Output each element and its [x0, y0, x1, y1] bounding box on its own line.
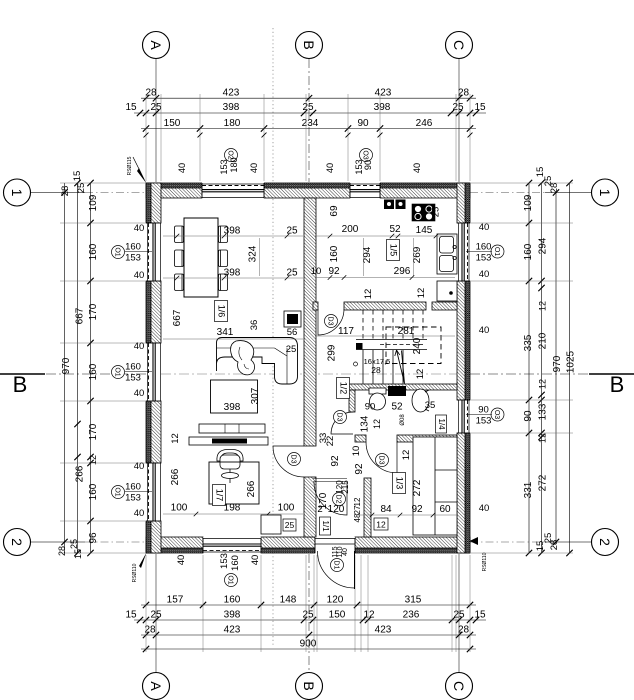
- right dimension column segments 109-160-335-90-331: [528, 183, 530, 553]
- svg-text:52: 52: [389, 224, 401, 235]
- svg-text:423: 423: [224, 625, 241, 636]
- study room label 1/7: [213, 485, 226, 506]
- insulation dashes across left windows: [148, 223, 150, 281]
- svg-text:69: 69: [329, 205, 340, 217]
- svg-text:160: 160: [476, 242, 492, 253]
- svg-text:150: 150: [164, 118, 181, 129]
- right dimension column 294-210-133-272: [541, 183, 543, 553]
- wall exterior bottom segment mid-left: [261, 537, 315, 553]
- window O2 top wall: [202, 183, 264, 199]
- svg-text:40: 40: [249, 163, 259, 173]
- svg-text:315: 315: [405, 595, 422, 606]
- svg-text:10: 10: [351, 446, 362, 457]
- axis 2 horizontal: [31, 541, 85, 543]
- svg-text:100: 100: [278, 503, 295, 514]
- svg-text:667: 667: [172, 309, 183, 326]
- svg-text:36: 36: [249, 320, 260, 331]
- dining room label 1/6: [215, 301, 228, 322]
- door D3 bedroom arc: [366, 442, 397, 473]
- svg-text:96: 96: [88, 532, 99, 544]
- svg-text:120: 120: [328, 504, 345, 515]
- svg-text:O1: O1: [114, 367, 121, 376]
- door D2 bubble: [333, 493, 346, 506]
- svg-text:12: 12: [415, 369, 426, 380]
- svg-text:28: 28: [458, 87, 470, 98]
- axis C vertical: [458, 59, 460, 182]
- svg-text:25: 25: [302, 610, 314, 621]
- window O3 top annotation: [360, 149, 373, 162]
- window O1 bottom annotation: [225, 574, 238, 587]
- wall interior kitchen bottom right: [432, 302, 457, 310]
- axis 1 horizontal: [31, 192, 85, 194]
- svg-text:12: 12: [416, 288, 427, 299]
- svg-text:200: 200: [342, 224, 359, 235]
- wall exterior left segment 1: [146, 183, 161, 223]
- svg-text:22: 22: [325, 436, 336, 447]
- dining chairs left: [175, 226, 184, 291]
- svg-text:2: 2: [9, 538, 25, 546]
- window O1 right annotation: [491, 245, 504, 258]
- svg-text:O1: O1: [114, 247, 121, 256]
- svg-text:234: 234: [302, 118, 319, 129]
- right dimension column 1025: [569, 183, 571, 553]
- svg-text:170: 170: [88, 303, 99, 320]
- door D1 bubble: [331, 559, 344, 572]
- svg-text:12: 12: [538, 433, 548, 443]
- wall exterior bottom segment right: [355, 537, 470, 553]
- svg-text:90: 90: [357, 118, 369, 129]
- bedroom closet: [413, 437, 457, 535]
- svg-text:272: 272: [412, 479, 423, 496]
- svg-text:12: 12: [88, 455, 98, 465]
- svg-text:25: 25: [150, 102, 162, 113]
- right dimension column 970: [555, 193, 557, 543]
- window O1 left upper annotation: [112, 246, 125, 259]
- svg-text:56: 56: [287, 327, 298, 338]
- svg-text:12: 12: [363, 610, 375, 621]
- svg-text:281: 281: [398, 326, 415, 337]
- svg-text:157: 157: [167, 595, 184, 606]
- svg-text:117: 117: [338, 326, 354, 337]
- svg-text:27: 27: [353, 505, 362, 514]
- svg-text:40: 40: [479, 269, 490, 280]
- svg-text:28: 28: [60, 186, 71, 197]
- insulation dashes across top window O2: [202, 185, 264, 187]
- svg-text:12: 12: [538, 379, 548, 389]
- vestibule room label 1/1: [320, 517, 331, 535]
- drain arrow bottom-left: [139, 553, 147, 569]
- svg-text:28: 28: [145, 87, 157, 98]
- svg-text:1: 1: [9, 189, 25, 197]
- svg-text:40: 40: [134, 508, 145, 519]
- svg-text:133: 133: [538, 403, 549, 420]
- svg-text:153: 153: [125, 493, 141, 504]
- svg-text:160: 160: [125, 362, 141, 373]
- svg-text:100: 100: [171, 503, 188, 514]
- svg-text:180: 180: [229, 157, 239, 172]
- svg-text:423: 423: [375, 625, 392, 636]
- svg-text:25: 25: [452, 102, 464, 113]
- coffee table 398: [211, 380, 258, 413]
- svg-text:12: 12: [401, 450, 412, 461]
- axis B vertical: [308, 59, 310, 182]
- svg-text:294: 294: [538, 237, 549, 254]
- window O1 left wall lower: [146, 463, 161, 521]
- svg-text:O1: O1: [493, 247, 500, 256]
- top window jamb ticks: [144, 133, 149, 138]
- top dimension row 15-25-398-25-398-25-15: [134, 112, 486, 114]
- window O1 right wall upper: [457, 223, 470, 281]
- svg-text:84: 84: [380, 504, 392, 515]
- axis B horizontal centerline: [46, 373, 146, 375]
- svg-text:15: 15: [474, 610, 486, 621]
- dining chairs right: [219, 226, 228, 291]
- svg-text:266: 266: [246, 480, 257, 497]
- svg-text:28: 28: [57, 546, 67, 556]
- door D3 bathroom bubble: [334, 411, 347, 424]
- bathroom room label 1/4: [436, 415, 447, 433]
- svg-text:266: 266: [170, 468, 181, 485]
- svg-text:148: 148: [280, 595, 297, 606]
- dining table: [184, 218, 218, 297]
- svg-text:90: 90: [365, 402, 376, 413]
- sofa blanket figure: [231, 341, 255, 375]
- svg-text:1: 1: [597, 189, 613, 197]
- svg-text:Ø08: Ø08: [400, 414, 406, 426]
- svg-text:RSØ115: RSØ115: [127, 156, 133, 175]
- kitchen sink double: [437, 234, 457, 274]
- svg-text:1/7: 1/7: [215, 489, 225, 502]
- svg-text:15: 15: [125, 610, 137, 621]
- grid bubble B top: [296, 32, 323, 59]
- svg-text:153: 153: [219, 553, 230, 569]
- svg-text:2: 2: [317, 504, 322, 515]
- svg-text:423: 423: [223, 87, 240, 98]
- svg-text:210: 210: [538, 332, 549, 349]
- svg-text:92: 92: [328, 266, 340, 277]
- svg-text:O3: O3: [493, 410, 500, 419]
- svg-text:398: 398: [223, 102, 240, 113]
- study dim line: [163, 513, 303, 515]
- door D1 swing arc: [318, 551, 355, 588]
- svg-text:160: 160: [88, 483, 99, 500]
- svg-text:12: 12: [538, 301, 548, 311]
- bedroom room label 1/3: [393, 473, 406, 494]
- svg-text:A: A: [148, 681, 164, 691]
- bottom dimension row 15-25-398-25-150-12-236-25-15: [134, 619, 486, 621]
- desk: [209, 462, 259, 504]
- svg-text:134: 134: [360, 415, 371, 432]
- stairs treads lower flight: [363, 350, 403, 384]
- svg-text:40: 40: [134, 223, 145, 234]
- svg-text:120: 120: [327, 595, 344, 606]
- top dimension row 150-180-234-90-246: [141, 128, 476, 130]
- kitchen stove: [412, 204, 435, 221]
- svg-text:109: 109: [88, 194, 99, 211]
- wall interior kitchen bottom left: [344, 302, 426, 310]
- door D2 vestibule arc: [314, 482, 347, 515]
- svg-text:92: 92: [330, 455, 341, 467]
- svg-text:90: 90: [478, 405, 489, 416]
- svg-text:160: 160: [224, 595, 241, 606]
- svg-text:150: 150: [329, 610, 346, 621]
- svg-text:C: C: [451, 40, 467, 50]
- insulation dashes across top window O3: [350, 185, 380, 187]
- right extension lines horizontal: [471, 182, 573, 184]
- stairs treads upper flight dashed: [363, 310, 423, 339]
- wall exterior right segment 3: [457, 433, 470, 553]
- door D3 living room bubble: [288, 453, 301, 466]
- svg-text:D3: D3: [378, 456, 385, 465]
- svg-text:170: 170: [88, 423, 99, 440]
- wall exterior right segment 2: [457, 281, 470, 400]
- top dimension row 28-423-423-28: [141, 97, 476, 99]
- svg-text:D3: D3: [336, 413, 343, 422]
- svg-text:341: 341: [217, 327, 234, 338]
- svg-text:D3: D3: [290, 455, 297, 464]
- svg-text:160: 160: [523, 243, 534, 260]
- window O3 right wall lower: [457, 400, 470, 433]
- office chair: [217, 450, 243, 484]
- hall room label 1/2: [337, 378, 350, 399]
- svg-text:15: 15: [73, 549, 83, 559]
- svg-text:40: 40: [325, 163, 335, 173]
- wall interior vertical main upper: [304, 198, 316, 446]
- reference dotted line x=273: [272, 28, 274, 645]
- svg-text:398: 398: [224, 268, 241, 279]
- svg-text:40: 40: [479, 503, 490, 514]
- svg-text:12: 12: [363, 289, 374, 300]
- svg-text:40: 40: [134, 388, 145, 399]
- door D1 opening bottom wall: [315, 537, 355, 553]
- svg-text:10: 10: [311, 266, 322, 277]
- left dimension column segments 109-160-170-160-170-12-160-96: [90, 183, 92, 553]
- wall interior bedroom top left stub: [355, 435, 366, 442]
- svg-text:667: 667: [75, 307, 86, 324]
- svg-text:25: 25: [302, 102, 314, 113]
- svg-text:15: 15: [72, 171, 83, 182]
- window O2 top annotation: [225, 149, 238, 162]
- window O3 right annotation: [491, 408, 504, 421]
- svg-text:160: 160: [329, 245, 340, 262]
- svg-text:B: B: [301, 40, 317, 49]
- svg-text:1/1: 1/1: [321, 520, 330, 532]
- svg-text:28: 28: [549, 540, 560, 551]
- svg-text:970: 970: [552, 355, 563, 372]
- wall interior bathroom left: [349, 390, 355, 412]
- svg-text:90: 90: [363, 160, 373, 170]
- svg-text:160: 160: [88, 243, 99, 260]
- svg-text:40: 40: [177, 163, 187, 173]
- svg-text:1/2: 1/2: [339, 382, 349, 395]
- svg-text:40: 40: [412, 163, 422, 173]
- wall exterior right segment 1: [457, 183, 470, 223]
- svg-text:B: B: [13, 372, 28, 397]
- svg-text:40: 40: [134, 461, 145, 472]
- grid bubble 1 left: [4, 179, 31, 206]
- svg-text:180: 180: [224, 118, 241, 129]
- bedroom dim line: [357, 514, 457, 516]
- svg-text:40: 40: [479, 325, 490, 336]
- svg-text:RSØ110: RSØ110: [132, 563, 138, 582]
- tv sideboard: [189, 424, 268, 445]
- section label B left: [0, 373, 45, 375]
- svg-text:O3: O3: [362, 150, 369, 159]
- drain arrow bottom-right: [470, 537, 479, 545]
- svg-text:90: 90: [523, 410, 534, 422]
- living dim line: [163, 338, 303, 340]
- top extension lines: [145, 94, 147, 181]
- dining dim lines: [163, 235, 303, 237]
- svg-text:153: 153: [476, 253, 492, 264]
- svg-text:28: 28: [371, 365, 381, 375]
- svg-text:C: C: [451, 681, 467, 691]
- svg-text:272: 272: [538, 474, 549, 491]
- svg-text:198: 198: [224, 503, 241, 514]
- insulation dashes across bottom window O1: [203, 550, 261, 552]
- svg-text:307: 307: [250, 387, 261, 404]
- door D2 threshold: [313, 478, 347, 480]
- kitchen dim lines: [315, 235, 455, 237]
- svg-text:28: 28: [458, 625, 470, 636]
- svg-text:D3: D3: [327, 317, 334, 326]
- svg-text:1/6: 1/6: [217, 305, 227, 318]
- left extension lines horizontal: [60, 182, 145, 184]
- svg-text:25: 25: [286, 344, 297, 355]
- svg-text:40: 40: [134, 341, 145, 352]
- svg-text:970: 970: [61, 357, 72, 374]
- wall exterior bottom segment left: [146, 537, 203, 553]
- door D3 living room arc: [273, 446, 304, 477]
- svg-text:60: 60: [439, 504, 451, 515]
- svg-text:25: 25: [453, 610, 465, 621]
- svg-text:145: 145: [416, 225, 433, 236]
- wall interior kitchen-hall stub: [313, 302, 318, 310]
- kitchen fridge: [437, 281, 457, 301]
- svg-text:160: 160: [125, 482, 141, 493]
- stairs dim line: [315, 335, 455, 337]
- wall interior vertical main lower: [304, 477, 316, 537]
- window O1 bottom wall: [203, 537, 261, 553]
- svg-text:A: A: [148, 40, 164, 50]
- svg-text:35: 35: [425, 400, 436, 411]
- window O3 top wall: [350, 183, 380, 199]
- kitchen room label 1/5: [387, 240, 400, 261]
- door D3 bathroom arc: [331, 412, 353, 434]
- svg-text:15: 15: [474, 102, 486, 113]
- svg-text:12: 12: [372, 419, 382, 429]
- wall exterior left segment 4: [146, 521, 161, 553]
- svg-text:12: 12: [170, 433, 181, 444]
- svg-text:25: 25: [76, 183, 87, 194]
- svg-text:40: 40: [479, 222, 490, 233]
- grid bubble C bottom: [446, 673, 473, 700]
- wall exterior top segment left: [146, 183, 202, 198]
- window O1 left middle annotation: [112, 366, 125, 379]
- svg-text:D1: D1: [333, 561, 340, 570]
- stairs upper flight dashed outline: [386, 327, 441, 364]
- kitchen hood black icon: [384, 200, 406, 210]
- grid bubble B bottom: [296, 673, 323, 700]
- svg-text:28: 28: [549, 183, 560, 194]
- bathroom sink: [412, 389, 429, 412]
- svg-text:153: 153: [476, 416, 492, 427]
- svg-text:236: 236: [403, 610, 420, 621]
- svg-text:B: B: [301, 681, 317, 690]
- svg-text:25: 25: [431, 207, 442, 218]
- svg-text:160: 160: [230, 555, 241, 571]
- svg-text:153: 153: [125, 253, 141, 264]
- grid bubble 2 left: [4, 529, 31, 556]
- svg-text:398: 398: [224, 226, 241, 237]
- insulation dashes across right windows: [467, 223, 469, 281]
- svg-text:160: 160: [88, 363, 99, 380]
- wall exterior left segment 2: [146, 281, 161, 343]
- svg-text:2: 2: [597, 538, 613, 546]
- svg-text:D2: D2: [335, 495, 342, 504]
- svg-text:O1: O1: [114, 487, 121, 496]
- svg-text:25: 25: [285, 520, 295, 530]
- bottom extension lines: [145, 555, 147, 652]
- bedroom 12 box: [374, 518, 388, 530]
- svg-text:B: B: [610, 372, 625, 397]
- grid bubble 1 right: [592, 179, 619, 206]
- window O1 left wall upper: [146, 223, 161, 281]
- svg-text:153: 153: [219, 159, 229, 174]
- wall interior stairs bottom: [349, 384, 457, 390]
- svg-text:215: 215: [341, 480, 350, 494]
- section label B right: [589, 373, 634, 375]
- drain arrow top-left: [137, 168, 147, 184]
- bottom dimension row 157-160-148-120-315: [141, 604, 476, 606]
- study cabinet: [261, 515, 281, 534]
- svg-text:246: 246: [416, 118, 433, 129]
- svg-text:O1: O1: [227, 575, 234, 584]
- bathroom toilet: [369, 388, 386, 410]
- svg-text:296: 296: [394, 266, 411, 277]
- svg-text:48: 48: [353, 513, 362, 522]
- svg-text:RSØ110: RSØ110: [482, 552, 488, 571]
- door D3 bedroom bubble: [376, 454, 389, 467]
- bathroom washer black box: [388, 386, 406, 396]
- door D3 kitchen-hall bubble: [325, 315, 338, 328]
- svg-text:92: 92: [354, 463, 365, 475]
- stairs landing lines: [356, 339, 427, 341]
- svg-text:12: 12: [353, 497, 362, 506]
- svg-text:15: 15: [125, 102, 137, 113]
- fireplace stove: [284, 311, 301, 327]
- svg-text:324: 324: [248, 245, 259, 262]
- svg-text:92: 92: [411, 504, 423, 515]
- door D1 leaf: [354, 551, 356, 589]
- svg-text:160: 160: [125, 242, 141, 253]
- svg-text:423: 423: [375, 87, 392, 98]
- svg-text:331: 331: [523, 481, 534, 498]
- grid bubble C top: [446, 32, 473, 59]
- svg-text:40: 40: [134, 270, 145, 281]
- grid bubble A top: [143, 32, 170, 59]
- svg-text:1/5: 1/5: [389, 244, 399, 257]
- svg-text:1/4: 1/4: [437, 418, 446, 430]
- window O1 left wall middle: [146, 343, 161, 401]
- left dimension column 667-266: [77, 183, 79, 553]
- wall interior vestibule right: [364, 478, 371, 537]
- svg-text:40: 40: [176, 555, 187, 566]
- window O1 left lower annotation: [112, 486, 125, 499]
- door D3 kitchen-hall arc: [318, 309, 344, 335]
- svg-text:240: 240: [412, 337, 423, 354]
- svg-text:1/3: 1/3: [395, 477, 405, 490]
